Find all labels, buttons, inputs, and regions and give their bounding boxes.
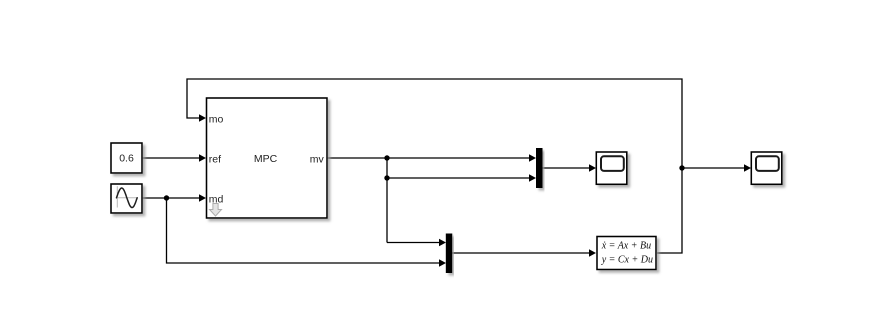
sine icon axes [116, 186, 138, 207]
svg-text:ref: ref [209, 153, 221, 165]
wire mv branch to lower mux input 1 [387, 239, 446, 246]
sine wave source block [111, 184, 142, 213]
svg-text:ẋ = Ax + Bu: ẋ = Ax + Bu [601, 241, 651, 252]
junction dot mv branch upper [384, 155, 389, 160]
scope block 1 [596, 152, 627, 184]
junction dot mv branch second [384, 175, 389, 180]
wire mv output to upper mux input 1 [327, 154, 536, 161]
svg-text:0.6: 0.6 [119, 153, 134, 165]
svg-text:y = Cx + Du: y = Cx + Du [601, 255, 653, 266]
state-space plant block [597, 237, 656, 270]
md gray down-arrow icon [210, 204, 222, 217]
svg-text:MPC: MPC [254, 153, 278, 165]
wire constant to ref port [142, 154, 206, 161]
sine icon curve [117, 188, 138, 208]
svg-text:mv: mv [310, 153, 325, 165]
MPC controller block [207, 98, 328, 218]
junction dot feedback to scope 2 [679, 165, 684, 170]
upper mux bar [537, 149, 543, 188]
junction dot on sine wire [164, 195, 169, 200]
constant block 0.6 [111, 143, 142, 173]
wire state-space output feedback to mo port [187, 79, 682, 253]
scope block 2 [751, 152, 782, 184]
svg-text:mo: mo [209, 113, 224, 125]
wire sine to md port [142, 194, 206, 201]
wire lower mux output to state-space [452, 249, 596, 256]
scope 2 screen [756, 156, 779, 171]
wire upper mux output to scope 1 [542, 164, 596, 171]
scope 1 screen [601, 156, 624, 171]
wire mv branch to upper mux input 2 [387, 174, 536, 181]
wire feedback branch to scope 2 [682, 164, 751, 171]
wire mv branch down segment [386, 158, 388, 243]
wire sine branch to lower mux input 2 [167, 198, 447, 267]
lower mux bar [446, 234, 452, 273]
